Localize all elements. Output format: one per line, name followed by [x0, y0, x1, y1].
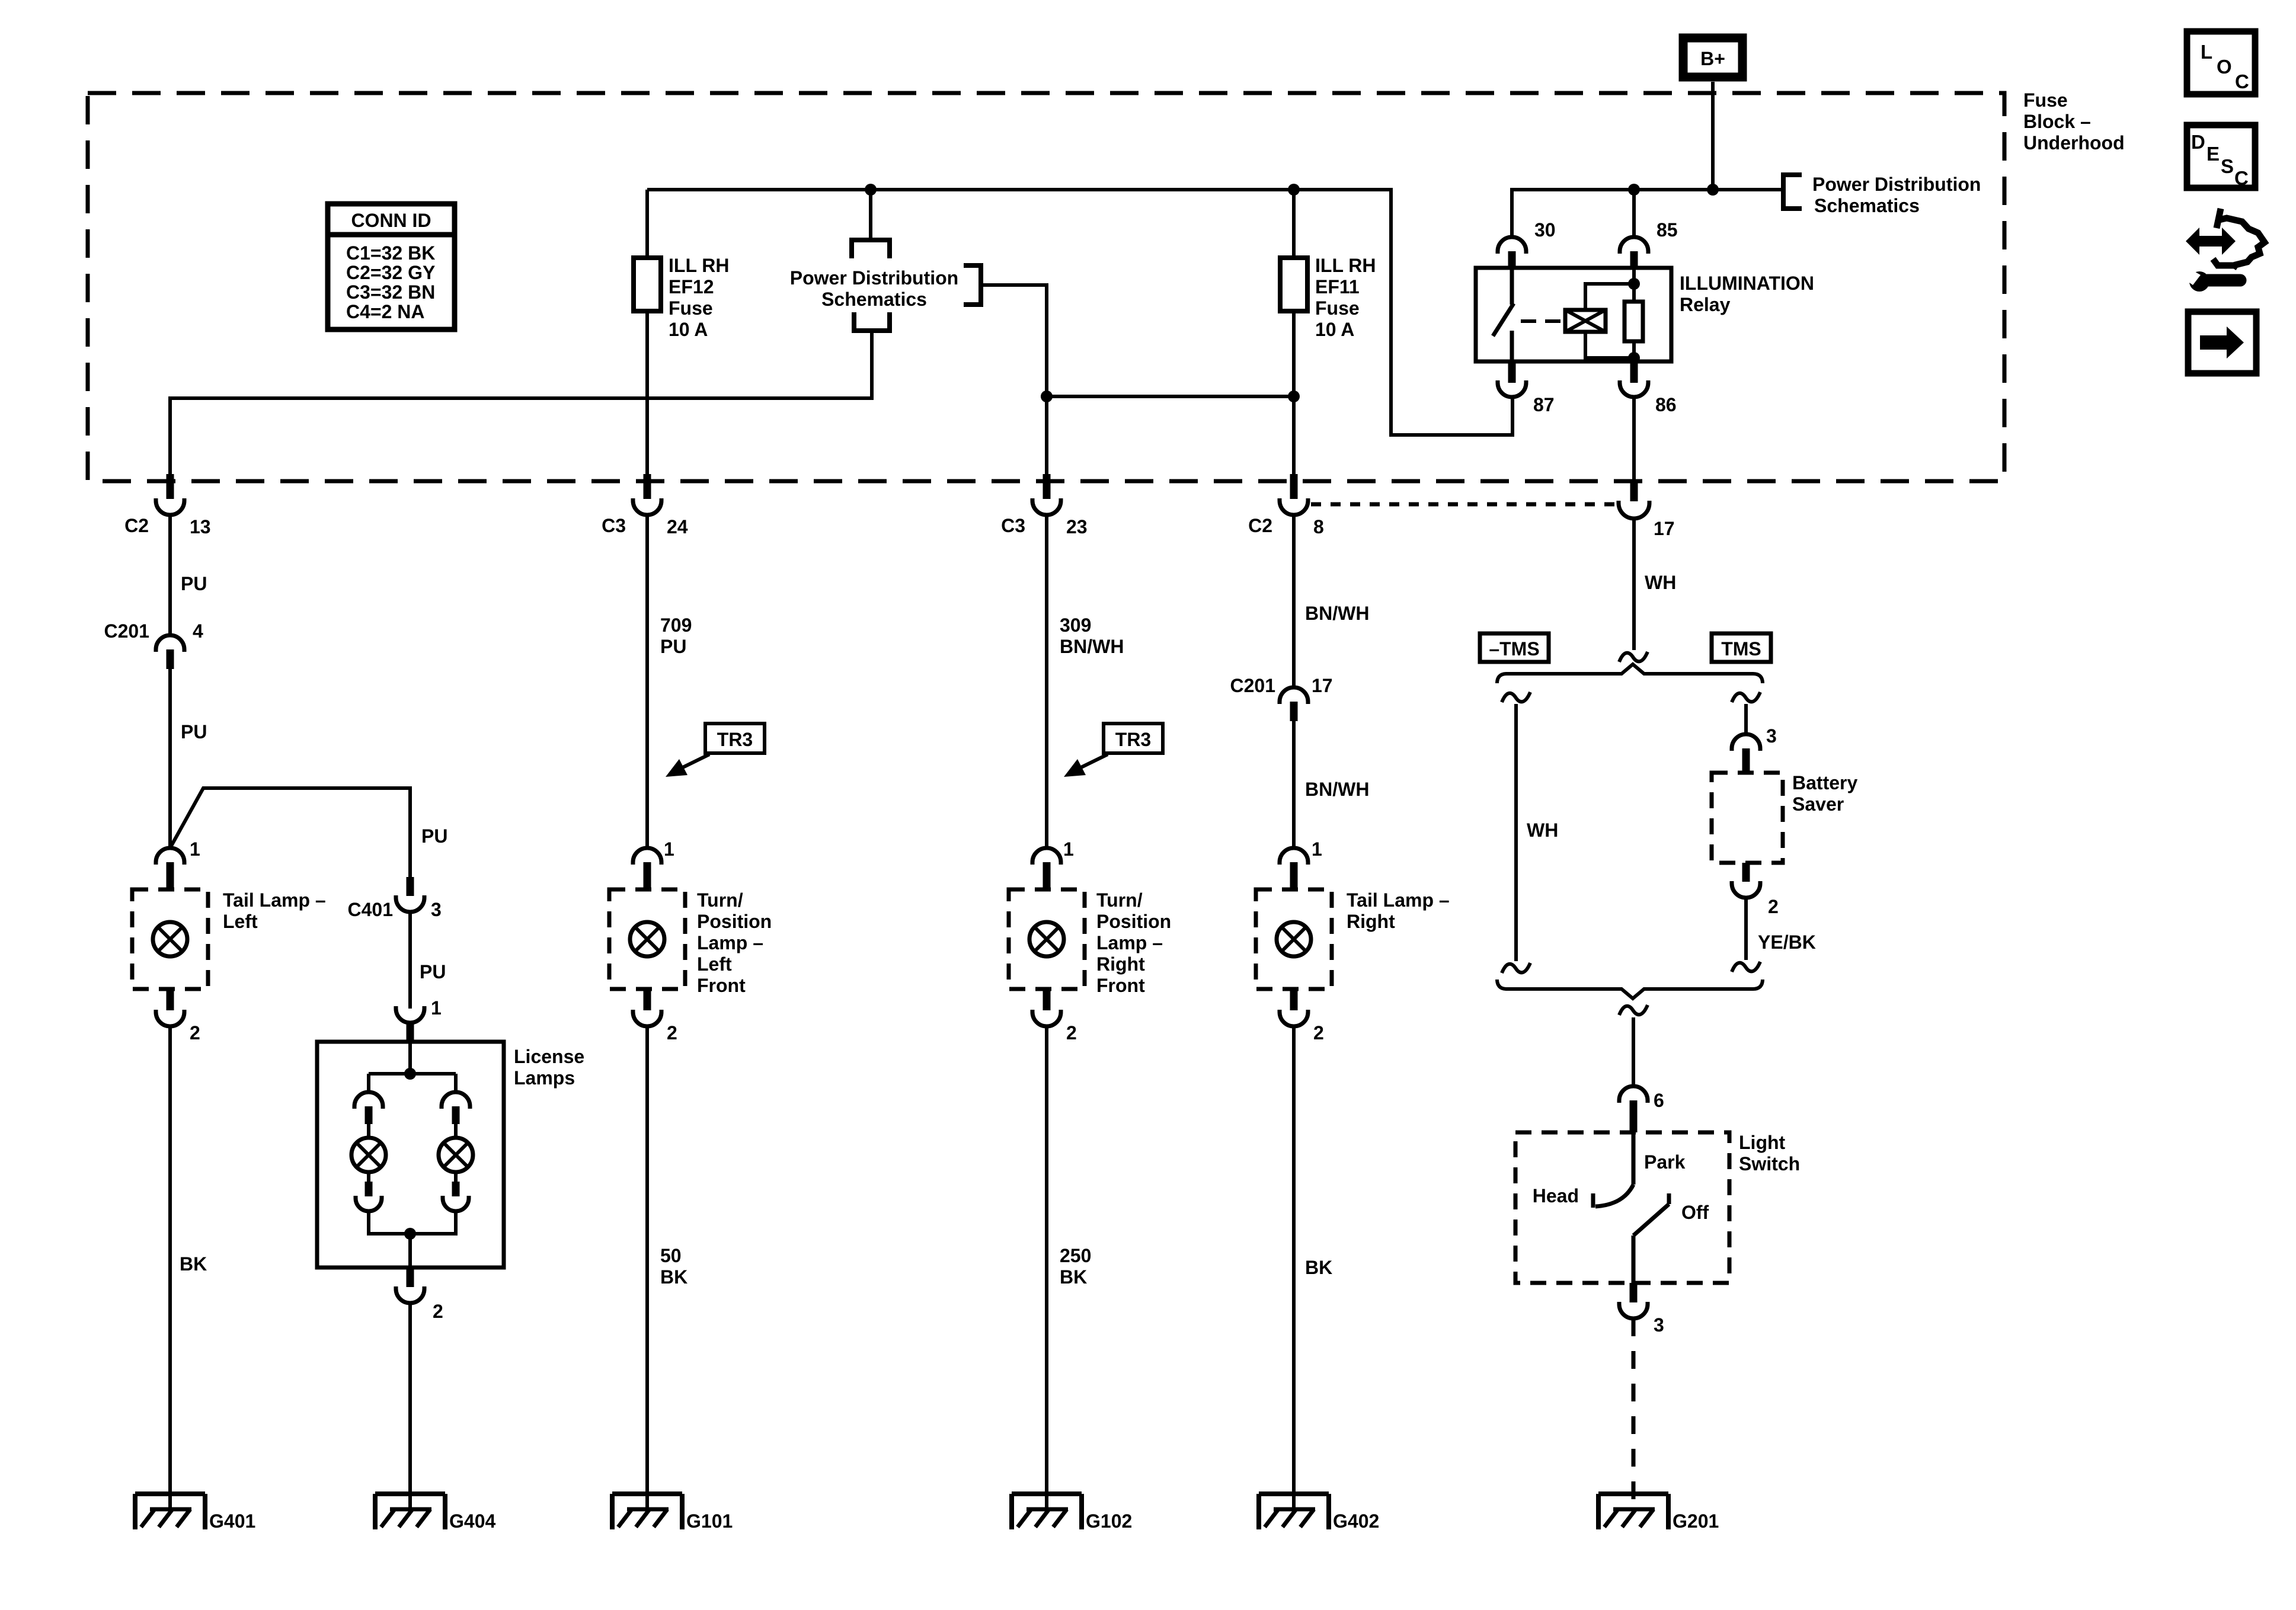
svg-text:Underhood: Underhood: [2023, 132, 2125, 153]
relay pin 85 connector: [1620, 219, 1678, 268]
node relay coil bottom: [1628, 352, 1640, 364]
svg-text:S: S: [2221, 155, 2234, 177]
connector C201 pin 17: [1230, 675, 1333, 721]
light switch dashed box: [1515, 1132, 1729, 1283]
svg-text:1: 1: [190, 838, 200, 860]
turn lamp right pin 2 connector: [1032, 989, 1077, 1044]
harness break TMS bottom: [1732, 962, 1760, 972]
connector C3 pin 23: [1001, 474, 1088, 537]
wire EF12 to C3-24: [645, 311, 649, 475]
connector pin 17: [1619, 481, 1675, 539]
label wire WH (top): [1645, 572, 1676, 593]
harness break -TMS top: [1502, 692, 1530, 702]
wire C3-24 to lamp: [645, 515, 649, 848]
svg-text:C2: C2: [1248, 515, 1272, 536]
svg-text:3: 3: [1654, 1314, 1664, 1336]
svg-text:Left: Left: [223, 911, 258, 932]
svg-text:C1=32 BK: C1=32 BK: [346, 242, 435, 264]
tail lamp left pin 1 connector: [156, 838, 200, 889]
turn lamp left pin 2 connector: [633, 989, 677, 1044]
harness break TMS top: [1732, 692, 1760, 702]
label wire WH (-TMS branch): [1527, 820, 1558, 841]
svg-text:Light: Light: [1739, 1132, 1786, 1153]
svg-text:4: 4: [193, 620, 203, 642]
wire tail lamp left to ground: [168, 1026, 172, 1509]
svg-text:PU: PU: [421, 825, 447, 847]
turn/position lamp left front dashed box: [609, 889, 685, 989]
callout TR3 (left): [666, 724, 765, 777]
svg-text:Lamp –: Lamp –: [1096, 932, 1163, 953]
svg-text:13: 13: [190, 516, 211, 537]
svg-text:G401: G401: [209, 1510, 255, 1532]
svg-text:85: 85: [1657, 219, 1678, 241]
license lamps pin 1 connector: [396, 997, 442, 1042]
fuse EF11: [1280, 258, 1307, 311]
label Head: [1533, 1185, 1579, 1206]
label Turn/Position Lamp - Left Front: [697, 889, 772, 996]
svg-text:1: 1: [1063, 838, 1074, 860]
label wire BN/WH (upper): [1305, 603, 1369, 624]
svg-text:Left: Left: [697, 953, 732, 975]
svg-text:1: 1: [664, 838, 674, 860]
svg-text:1: 1: [431, 997, 442, 1019]
svg-text:BN/WH: BN/WH: [1060, 636, 1124, 657]
svg-text:License: License: [514, 1046, 584, 1067]
svg-text:Saver: Saver: [1792, 793, 1844, 815]
wire to light switch: [1632, 1017, 1635, 1086]
connector C401 pin 3: [348, 877, 442, 920]
svg-text:PU: PU: [420, 961, 446, 982]
svg-text:O: O: [2217, 56, 2232, 78]
relay pin 87 connector: [1498, 361, 1555, 415]
connector C3 pin 24: [602, 474, 688, 537]
svg-text:TMS: TMS: [1721, 638, 1761, 660]
svg-text:Switch: Switch: [1739, 1153, 1800, 1174]
svg-text:BN/WH: BN/WH: [1305, 779, 1369, 800]
svg-text:309: 309: [1060, 614, 1091, 636]
wire crossfeed to front lamps: [1047, 395, 1294, 398]
fuse block underhood boundary (dashed): [88, 93, 2004, 481]
svg-text:WH: WH: [1527, 820, 1558, 841]
connector C2 pin 13: [124, 474, 211, 537]
label wire PU (branch): [421, 825, 447, 847]
svg-text:–TMS: –TMS: [1489, 638, 1539, 660]
svg-text:BK: BK: [1305, 1257, 1332, 1278]
ground G101: [612, 1494, 733, 1532]
relay coil (X box): [1565, 310, 1606, 332]
light switch pin 6 connector: [1619, 1086, 1664, 1132]
svg-text:Schematics: Schematics: [1814, 195, 1920, 216]
svg-text:G404: G404: [449, 1510, 495, 1532]
ground G401: [135, 1494, 255, 1532]
svg-text:C401: C401: [348, 899, 394, 920]
tail lamp left bulb: [153, 922, 187, 956]
svg-text:CONN ID: CONN ID: [351, 210, 431, 231]
svg-text:C201: C201: [1230, 675, 1276, 696]
wire C201-17 to tail lamp right: [1292, 721, 1296, 848]
svg-text:G201: G201: [1673, 1510, 1719, 1532]
battery saver pin 3 connector: [1732, 725, 1777, 773]
label circuit 709 PU: [660, 614, 692, 657]
svg-text:G101: G101: [686, 1510, 733, 1532]
svg-text:Right: Right: [1347, 911, 1395, 932]
svg-text:250: 250: [1060, 1245, 1091, 1266]
node junction bus-EF11: [1288, 184, 1300, 196]
fuse block connector row (dotted): [1311, 502, 1616, 507]
label Fuse Block - Underhood: [2023, 89, 2125, 153]
svg-text:2: 2: [1768, 896, 1779, 917]
tail lamp left dashed box: [132, 889, 208, 989]
relay coil wires: [1585, 284, 1634, 358]
svg-text:Tail Lamp –: Tail Lamp –: [223, 889, 326, 911]
wire TMS branch lower: [1744, 898, 1748, 960]
CONN ID table: [328, 204, 455, 329]
svg-text:ILLUMINATION: ILLUMINATION: [1680, 273, 1814, 294]
label wire YE/BK: [1758, 932, 1816, 953]
svg-text:Tail Lamp –: Tail Lamp –: [1347, 889, 1450, 911]
illumination relay U1 box: [1476, 268, 1671, 361]
wire turn lamp left to ground: [645, 1026, 649, 1509]
icon LOC box: [2187, 31, 2255, 94]
icon diagnostic part outline: [2213, 209, 2265, 268]
label Battery Saver: [1792, 772, 1857, 815]
harness break top: [1619, 652, 1648, 662]
svg-text:C2=32 GY: C2=32 GY: [346, 262, 435, 283]
svg-text:2: 2: [1313, 1022, 1324, 1044]
label fuse EF12: [669, 255, 730, 340]
tail lamp right pin 2 connector: [1280, 989, 1324, 1044]
svg-text:23: 23: [1066, 516, 1088, 537]
relay resistor: [1625, 302, 1643, 341]
wire C201-4 to tail lamp left: [168, 669, 172, 848]
svg-text:C: C: [2234, 167, 2249, 189]
option label -TMS: [1480, 633, 1549, 662]
svg-text:L: L: [2201, 41, 2212, 63]
option label TMS: [1712, 633, 1771, 662]
wire bus to fuse EF11: [1292, 190, 1296, 258]
label wire PU (license): [420, 961, 446, 982]
label wire BN/WH (lower): [1305, 779, 1369, 800]
node license lamp split: [404, 1068, 416, 1080]
svg-text:ILL RH: ILL RH: [669, 255, 730, 276]
svg-text:C3: C3: [602, 515, 626, 536]
label Light Switch: [1739, 1132, 1800, 1174]
svg-text:BK: BK: [1060, 1266, 1087, 1288]
svg-text:3: 3: [1766, 725, 1777, 747]
wire pin 86 to pin 17: [1632, 397, 1636, 482]
callout TR3 (right): [1064, 724, 1163, 777]
wire bus to off-page bracket: [869, 190, 872, 240]
label Turn/Position Lamp - Right Front: [1096, 889, 1171, 996]
harness brace upper: [1497, 664, 1763, 683]
relay pin 30 connector: [1498, 219, 1556, 268]
svg-text:17: 17: [1312, 675, 1333, 696]
svg-text:D: D: [2191, 131, 2205, 153]
light switch off contact: [1633, 1193, 1669, 1283]
harness brace lower: [1497, 980, 1763, 998]
wire C401-3 to license lamps: [408, 912, 412, 1009]
label circuit 50 BK: [660, 1245, 687, 1288]
svg-text:Position: Position: [1096, 911, 1171, 932]
svg-text:PU: PU: [660, 636, 686, 657]
license lamps internal return: [369, 1211, 456, 1267]
svg-text:10 A: 10 A: [1315, 319, 1354, 340]
relay internal wire pin85: [1632, 268, 1636, 361]
svg-text:ILL RH: ILL RH: [1315, 255, 1376, 276]
svg-text:2: 2: [433, 1301, 443, 1322]
hidden wire to G201 (dashed): [1632, 1318, 1636, 1509]
tail lamp left pin 2 connector: [156, 989, 200, 1044]
battery positive voltage symbol B+: [1683, 38, 1742, 77]
svg-text:6: 6: [1654, 1090, 1664, 1111]
svg-text:B+: B+: [1700, 48, 1725, 69]
wire pin17 down: [1632, 517, 1636, 650]
ground G402: [1259, 1494, 1379, 1532]
svg-text:BN/WH: BN/WH: [1305, 603, 1369, 624]
node relay coil top: [1628, 278, 1640, 290]
svg-text:Front: Front: [697, 975, 746, 996]
svg-text:PU: PU: [181, 573, 207, 594]
off-page connector to Power Distribution Schematics (right): [1783, 174, 1981, 216]
label License Lamps: [514, 1046, 584, 1089]
turn/position lamp right front bulb: [1029, 922, 1064, 956]
wire pigtail to tail lamp left feed: [170, 331, 872, 475]
svg-text:WH: WH: [1645, 572, 1676, 593]
turn/position lamp left front bulb: [630, 922, 664, 956]
wire bus to fuse EF12: [645, 190, 649, 258]
connector C2 pin 8: [1248, 474, 1324, 537]
svg-text:Schematics: Schematics: [821, 289, 927, 310]
fuse EF12: [634, 258, 661, 311]
svg-text:C2: C2: [124, 515, 149, 536]
svg-text:Position: Position: [697, 911, 772, 932]
svg-text:709: 709: [660, 614, 692, 636]
label wire PU (upper left): [181, 573, 207, 594]
tail lamp right dashed box: [1256, 889, 1332, 989]
license lamps internal feed: [369, 1042, 456, 1092]
label Tail Lamp - Left: [223, 889, 326, 932]
off-page connector side bracket: [964, 265, 981, 305]
harness break -TMS bottom: [1502, 963, 1530, 973]
label fuse EF11: [1315, 255, 1376, 340]
label Tail Lamp - Right: [1347, 889, 1450, 932]
turn/position lamp right front dashed box: [1009, 889, 1085, 989]
svg-text:3: 3: [431, 899, 442, 920]
svg-text:1: 1: [1312, 838, 1322, 860]
label wire BK (left): [180, 1253, 207, 1275]
turn lamp right pin 1 connector: [1032, 838, 1074, 889]
license lamps pin 2 connector: [396, 1267, 443, 1322]
svg-text:BK: BK: [180, 1253, 207, 1275]
svg-text:C: C: [2235, 71, 2249, 92]
icon diagnostic arrows: [2186, 228, 2236, 255]
svg-text:Relay: Relay: [1680, 294, 1731, 315]
svg-text:Fuse: Fuse: [1315, 297, 1360, 319]
connector C201 pin 4: [104, 620, 204, 669]
svg-text:E: E: [2207, 143, 2220, 165]
svg-text:BK: BK: [660, 1266, 687, 1288]
wire junction to C3-23: [1045, 396, 1048, 475]
light switch park contact: [1593, 1132, 1633, 1208]
relay actuator dashed link: [1521, 319, 1560, 323]
label circuit 309 BN/WH: [1060, 614, 1124, 657]
off-page connector from Power Distribution Schematics (up bracket): [854, 312, 890, 331]
svg-text:Right: Right: [1096, 953, 1145, 975]
ground G201: [1598, 1494, 1719, 1532]
svg-text:C4=2 NA: C4=2 NA: [346, 301, 425, 322]
wire EF11 to C2-8: [1292, 311, 1296, 475]
relay pin 86 connector: [1620, 361, 1677, 415]
battery saver dashed box: [1712, 773, 1783, 863]
tail lamp right bulb: [1277, 922, 1311, 956]
wire -TMS WH branch: [1514, 704, 1518, 961]
svg-text:2: 2: [1066, 1022, 1077, 1044]
svg-text:G102: G102: [1086, 1510, 1132, 1532]
svg-text:10 A: 10 A: [669, 319, 708, 340]
svg-text:TR3: TR3: [1115, 729, 1151, 750]
svg-text:8: 8: [1313, 516, 1324, 537]
turn lamp left pin 1 connector: [633, 838, 674, 889]
svg-text:Park: Park: [1644, 1151, 1686, 1173]
license lamp left terminal top: [354, 1092, 383, 1124]
svg-text:C3=32 BN: C3=32 BN: [346, 281, 435, 303]
label wire BK (right): [1305, 1257, 1332, 1278]
off-page connector into Power Distribution Schematics (down bracket): [852, 240, 890, 258]
license lamp left terminal bottom: [356, 1172, 382, 1211]
svg-text:Off: Off: [1681, 1202, 1709, 1223]
node license lamp join: [404, 1228, 416, 1240]
license lamp right bulb: [439, 1124, 473, 1172]
svg-text:Power Distribution: Power Distribution: [790, 267, 958, 289]
svg-text:86: 86: [1655, 394, 1677, 415]
svg-text:Power Distribution: Power Distribution: [1812, 174, 1981, 195]
svg-text:TR3: TR3: [717, 729, 753, 750]
node junction B+ drop: [1707, 184, 1719, 196]
svg-text:C201: C201: [104, 620, 150, 642]
wire TMS branch upper: [1744, 704, 1748, 734]
license lamps box: [317, 1042, 504, 1267]
svg-text:EF11: EF11: [1315, 276, 1360, 297]
svg-text:Lamp –: Lamp –: [697, 932, 763, 953]
node junction front lamp feed: [1041, 391, 1053, 402]
svg-text:EF12: EF12: [669, 276, 714, 297]
svg-text:87: 87: [1533, 394, 1555, 415]
svg-text:Battery: Battery: [1792, 772, 1857, 793]
label Park: [1644, 1151, 1686, 1173]
label ILLUMINATION Relay: [1680, 273, 1814, 315]
svg-text:G402: G402: [1333, 1510, 1379, 1532]
wire fuse feed bus from EF12 to relay pin 87: [647, 190, 1512, 435]
license lamp right terminal bottom: [443, 1172, 469, 1211]
tail lamp right pin 1 connector: [1280, 838, 1322, 889]
svg-text:Turn/: Turn/: [697, 889, 743, 911]
svg-text:C3: C3: [1001, 515, 1025, 536]
wire branch to license lamps: [170, 788, 410, 877]
ground G404: [375, 1494, 495, 1532]
ground G102: [1012, 1494, 1132, 1532]
wire turn lamp right to ground: [1045, 1026, 1048, 1509]
icon wrench: [2182, 266, 2240, 292]
wire B+ to relay bus: [1711, 82, 1715, 190]
wire relay feed bus: [1512, 190, 1783, 237]
svg-text:Block –: Block –: [2023, 111, 2091, 132]
node junction pin85 drop: [1628, 184, 1640, 196]
svg-text:Fuse: Fuse: [2023, 89, 2068, 111]
svg-text:2: 2: [190, 1022, 200, 1044]
node junction EF11 output: [1288, 391, 1300, 402]
node junction bus-pigtail: [865, 184, 877, 196]
light switch pin 3 connector: [1619, 1283, 1664, 1336]
svg-text:Front: Front: [1096, 975, 1145, 996]
wire side bracket to front lamp feed: [981, 285, 1047, 396]
label Off: [1681, 1202, 1709, 1223]
svg-text:PU: PU: [181, 721, 207, 742]
wire tail lamp right to ground: [1292, 1026, 1296, 1509]
svg-text:Head: Head: [1533, 1185, 1579, 1206]
battery saver pin 2 connector: [1732, 863, 1779, 917]
label Power Distribution Schematics (center): [790, 267, 958, 310]
wire C3-23 to lamp: [1045, 515, 1048, 848]
license lamp left bulb: [351, 1124, 386, 1172]
wire C2-8 to C201-17: [1292, 515, 1296, 687]
license lamp right terminal top: [442, 1092, 470, 1124]
svg-text:Fuse: Fuse: [669, 297, 713, 319]
svg-text:17: 17: [1654, 518, 1675, 539]
icon DESC box: [2187, 125, 2255, 189]
label circuit 250 BK: [1060, 1245, 1091, 1288]
svg-text:YE/BK: YE/BK: [1758, 932, 1816, 953]
svg-text:30: 30: [1534, 219, 1556, 241]
wire license lamps to ground: [408, 1303, 412, 1509]
svg-text:50: 50: [660, 1245, 682, 1266]
svg-text:24: 24: [667, 516, 688, 537]
svg-text:Turn/: Turn/: [1096, 889, 1143, 911]
svg-text:Lamps: Lamps: [514, 1067, 575, 1089]
harness break bottom: [1619, 1005, 1648, 1015]
svg-text:2: 2: [667, 1022, 677, 1044]
label wire PU (left): [181, 721, 207, 742]
wire C2-13 to C201-4: [168, 515, 172, 635]
icon forward arrow box: [2188, 312, 2256, 373]
relay switch contact 30-87: [1493, 268, 1514, 361]
wire pin85 drop: [1632, 190, 1636, 237]
